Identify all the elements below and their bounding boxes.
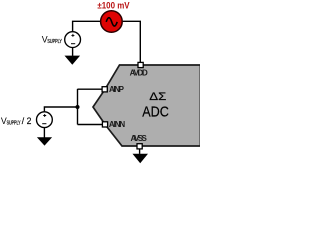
svg-text:SUPPLY: SUPPLY [47,39,62,45]
svg-text:AVSS: AVSS [131,134,148,143]
svg-text:ADC: ADC [142,105,169,121]
svg-text:AINN: AINN [109,120,126,129]
svg-text:/ 2: / 2 [22,116,32,126]
svg-text:AINP: AINP [109,85,125,94]
svg-text:SUPPLY: SUPPLY [7,120,21,126]
svg-text:AVDD: AVDD [130,69,148,78]
svg-text:±100 mV: ±100 mV [97,1,130,11]
svg-text:ΔΣ: ΔΣ [149,91,166,103]
